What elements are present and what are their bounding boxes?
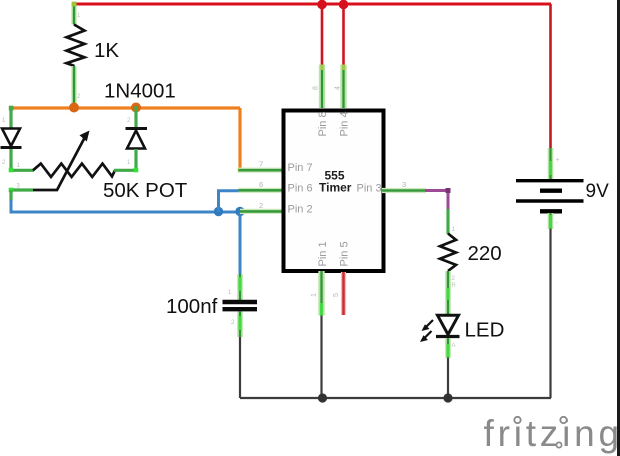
diode D1 cathode lead (green)	[9, 149, 12, 172]
pin 5 stub (red, unconnected)	[341, 272, 346, 315]
wire: orange net horizontal	[12, 106, 240, 109]
pin 4 stub (green)	[340, 65, 346, 109]
pin 6 stub (green)	[239, 188, 286, 193]
svg-text:Pin 3: Pin 3	[357, 183, 382, 195]
resistor R2 220 body	[440, 234, 456, 271]
svg-text:A: A	[452, 343, 456, 349]
svg-text:6: 6	[259, 180, 263, 189]
pin 3 stub (green)	[382, 188, 426, 193]
diode D2 cathode lead (green)	[134, 106, 137, 128]
wire: green down to R2	[446, 209, 449, 234]
battery BT1 top lead (green)	[548, 148, 554, 180]
wire: red drop to battery +	[549, 4, 552, 149]
resistor R1 bottom lead (green)	[71, 66, 76, 108]
wire: LED to bottom (green then black)	[445, 338, 451, 358]
wire: blue up-over to pin 6	[219, 191, 242, 212]
svg-text:2: 2	[259, 201, 263, 210]
svg-text:Pin 1: Pin 1	[317, 241, 329, 266]
diode D1 body (pointing down)	[2, 129, 20, 147]
svg-text:100nf: 100nf	[166, 295, 218, 318]
svg-text:Pin 2: Pin 2	[288, 203, 313, 215]
svg-text:Pin 5: Pin 5	[339, 241, 351, 266]
svg-text:Pin 8: Pin 8	[317, 111, 329, 136]
svg-text:3: 3	[402, 180, 406, 189]
potentiometer left lead (green)	[10, 169, 35, 172]
wire: orange net vertical to pin7	[238, 108, 241, 170]
diode D2 anode lead (green)	[134, 149, 137, 172]
wire: ground/bottom rail (black)	[240, 397, 551, 399]
svg-text:Pin 6: Pin 6	[288, 182, 313, 194]
svg-text:fritzing: fritzing	[484, 413, 620, 454]
svg-text:R: R	[452, 283, 457, 289]
resistor R1 top lead (green)	[71, 4, 76, 25]
junction: blue dot pin2 branch	[235, 207, 244, 216]
potentiometer body zigzag	[33, 164, 115, 177]
svg-text:5: 5	[333, 293, 340, 297]
svg-text:220: 220	[468, 242, 502, 265]
svg-text:50K POT: 50K POT	[103, 179, 188, 202]
diode D2 body (pointing up)	[126, 127, 148, 130]
svg-text:LED: LED	[465, 319, 505, 342]
wire: green down from wiper	[9, 190, 12, 201]
wire end dots (bright green)	[9, 168, 14, 173]
svg-text:9V: 9V	[586, 181, 610, 202]
wire: rail to pin 8 (red)	[321, 4, 324, 65]
battery BT1 bottom lead (green then black)	[548, 213, 554, 229]
svg-text:1N4001: 1N4001	[104, 80, 176, 103]
junction: pin4 on rail	[339, 0, 349, 9]
svg-text:7: 7	[259, 160, 263, 169]
junction: R1 on orange net	[69, 103, 79, 113]
pin 1 stub (green then black)	[318, 271, 324, 316]
wire: rail to pin 4 (red)	[342, 4, 345, 65]
junction: LED on bottom rail	[443, 393, 452, 402]
right window border	[617, 0, 620, 456]
pin 7 stub (green)	[238, 168, 243, 173]
svg-text:4: 4	[335, 86, 342, 90]
wire: purple from pin3	[425, 191, 448, 211]
svg-text:1K: 1K	[94, 39, 119, 62]
resistor R1 1K body	[67, 25, 85, 67]
svg-text:Pin 4: Pin 4	[339, 111, 351, 136]
svg-text:8: 8	[313, 86, 320, 90]
battery BT1 plates	[516, 179, 584, 182]
capacitor C1 top lead (green)	[237, 274, 243, 300]
junction: D2 on orange net	[131, 103, 141, 113]
svg-text:Pin 7: Pin 7	[288, 162, 313, 174]
wire: blue down to capacitor	[239, 212, 242, 276]
potentiometer right lead (green)	[114, 169, 138, 172]
capacitor C1 100nf plates	[223, 300, 258, 304]
wire: +V red top rail	[73, 3, 552, 6]
op-amp/IC U1 555 timer box	[284, 111, 384, 272]
pin 8 stub (green)	[319, 65, 325, 109]
svg-text:1: 1	[311, 293, 318, 297]
pin 2 stub (green)	[240, 209, 285, 214]
wire: blue net left vertical	[11, 200, 240, 212]
junction: blue dot pin6 branch	[214, 207, 223, 216]
svg-text:Timer: Timer	[319, 180, 352, 194]
diode D1 anode lead (green)	[9, 106, 12, 128]
potentiometer wiper lead (green)	[10, 188, 34, 191]
potentiometer wiper arm with arrow	[33, 137, 85, 190]
junction: pin1 on bottom rail	[318, 393, 327, 402]
capacitor C1 bottom lead (green then black)	[237, 312, 243, 338]
LED light arrows	[426, 320, 434, 328]
wire: R2 to LED (green)	[445, 271, 451, 314]
svg-text:+: +	[556, 157, 560, 164]
junction: pin8 on rail	[317, 0, 327, 9]
LED D3 body	[438, 315, 459, 334]
